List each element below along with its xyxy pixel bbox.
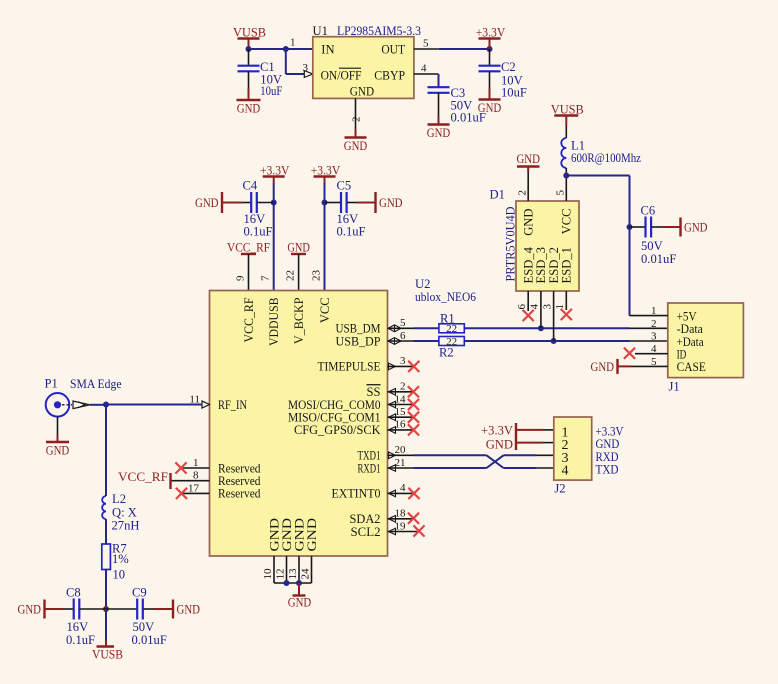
node junction VUSB_5V at L1 output <box>563 173 569 179</box>
value SMA Edge <box>70 377 122 391</box>
pin number 4 of J1 <box>651 343 657 355</box>
pin stub P1 shield to GND <box>57 417 59 442</box>
svg-text:GND: GND <box>379 196 403 210</box>
pin number 24 <box>299 568 311 580</box>
svg-text:10uF: 10uF <box>501 86 527 100</box>
svg-text:GND: GND <box>195 196 219 210</box>
ground GND at J1 CASE <box>591 359 618 374</box>
pin name +5V of J1 <box>677 308 698 323</box>
svg-text:U1: U1 <box>313 24 328 38</box>
svg-text:VCC_RF: VCC_RF <box>227 241 270 255</box>
designator L2 <box>112 492 126 506</box>
ground GND right of C6 <box>681 218 708 237</box>
node junction USB_DM at D1 pin 4 <box>538 325 544 331</box>
value Q: X <box>112 506 137 520</box>
svg-text:10: 10 <box>113 568 126 582</box>
pin stub GND (10) of U2 <box>273 556 275 583</box>
svg-text:19: 19 <box>395 520 407 532</box>
pin number 21 <box>395 457 406 469</box>
svg-text:J2: J2 <box>554 482 565 496</box>
pin number 1 of J2 <box>562 426 569 441</box>
pin name TXD of J2 <box>596 462 619 477</box>
svg-text:16: 16 <box>395 419 407 431</box>
pin stub MISO/CFG_COM1 (15) no-connect <box>388 412 420 423</box>
pin name ID of J1 <box>677 347 687 362</box>
pin number 7 <box>260 275 272 281</box>
svg-text:3: 3 <box>400 355 406 367</box>
svg-text:OUT: OUT <box>381 42 405 56</box>
pin stub USB_DM (5) to R1 <box>388 325 439 332</box>
svg-text:+3.3V: +3.3V <box>476 26 506 40</box>
wire junction to U1 pin 1 <box>286 48 313 50</box>
pin number 15 <box>395 406 407 418</box>
svg-text:18: 18 <box>395 508 407 520</box>
node junction C5 / pin23 <box>322 200 328 206</box>
pin stub D1 ESD_2 (3) <box>553 291 555 341</box>
svg-text:Reserved: Reserved <box>218 487 261 501</box>
svg-text:VCC_RF: VCC_RF <box>242 298 256 343</box>
pin number 3 of J1 <box>651 331 657 343</box>
power flag VUSB below matching network <box>92 609 123 662</box>
pin name GND of J2 <box>596 436 620 451</box>
pin number 1 of U2 <box>193 457 199 469</box>
wire RF node down to L2 <box>105 405 107 497</box>
pin number 5 of J1 <box>651 356 657 368</box>
pin stub D1 ESD_3 (4) <box>540 291 542 328</box>
svg-text:5: 5 <box>555 190 567 196</box>
capacitor C6 <box>630 204 681 267</box>
pin stub D1 ESD_1 (1) no-connect <box>561 291 572 320</box>
pin name TIMEPULSE <box>318 360 381 374</box>
svg-text:13: 13 <box>287 568 299 580</box>
pin number 2 of D1 <box>517 190 529 196</box>
pin number 2 of J2 <box>562 438 569 453</box>
pin stub EXTINT0 (4) no-connect <box>388 488 420 499</box>
pin stub Reserved (17) no-connect <box>176 488 210 499</box>
pin stub TIMEPULSE (3) no-connect <box>388 361 420 372</box>
pin name ESD_3 of D1 <box>534 247 548 284</box>
svg-text:4: 4 <box>562 464 569 479</box>
node junction RF / matching network <box>103 402 109 408</box>
power flag VCC_RF at pin 8 <box>118 470 171 489</box>
wire R7 to C8/C9 node <box>105 570 107 610</box>
value 600R@100Mhz <box>571 151 641 165</box>
svg-text:0.01uF: 0.01uF <box>641 252 676 266</box>
node junction C4 / pin7 <box>271 200 277 206</box>
pin number 4 of U1 <box>421 63 427 75</box>
svg-text:3: 3 <box>541 304 553 310</box>
ground GND below C3 <box>427 125 451 141</box>
pin number 3 of U1 <box>303 62 309 74</box>
svg-text:0.1uF: 0.1uF <box>66 633 95 647</box>
node junction USB_DP at D1 pin 3 <box>551 338 557 344</box>
svg-text:VCC: VCC <box>560 209 574 235</box>
pin number 16 <box>395 419 407 431</box>
designator R1 <box>440 312 455 326</box>
svg-text:L2: L2 <box>112 492 126 506</box>
svg-text:VUSB: VUSB <box>233 26 266 40</box>
svg-text:VUSB: VUSB <box>551 103 584 117</box>
pin name MOSI/CHG_COM0 <box>288 398 381 412</box>
pin stub GND (13) of U2 <box>298 556 300 583</box>
wire L2 to R7 <box>105 519 107 544</box>
resistor R2 <box>439 336 464 348</box>
svg-text:5: 5 <box>400 317 406 329</box>
ground GND right of C5 <box>376 192 403 213</box>
svg-text:RF_IN: RF_IN <box>218 398 247 412</box>
capacitor C8 <box>45 586 107 648</box>
svg-text:600R@100Mhz: 600R@100Mhz <box>571 151 641 165</box>
pin name TXD1 <box>358 449 381 463</box>
pin number 1 of U1 <box>290 37 296 49</box>
svg-text:5: 5 <box>423 38 429 50</box>
wire U1 GND pin 2 down <box>355 98 357 137</box>
power flag VUSB (input to U1) <box>233 26 266 50</box>
svg-text:27nH: 27nH <box>112 519 140 533</box>
capacitor C3 <box>428 86 486 125</box>
pin number 20 <box>395 444 407 456</box>
svg-text:1: 1 <box>290 37 296 49</box>
pin number 9 <box>235 275 247 281</box>
wire +3.3V to U2 pin 23 VCC <box>324 183 326 291</box>
pin stub J1 CASE (5) <box>618 365 668 367</box>
svg-text:3: 3 <box>303 62 309 74</box>
svg-text:R2: R2 <box>439 346 454 360</box>
pin name ESD_4 of D1 <box>522 246 536 283</box>
inductor L2 <box>102 496 106 519</box>
svg-text:50V: 50V <box>641 239 663 253</box>
pin number 14 <box>395 393 407 405</box>
svg-text:6: 6 <box>400 330 406 342</box>
pin name +3.3V of J2 <box>596 424 625 439</box>
svg-text:1: 1 <box>193 457 199 469</box>
svg-text:8: 8 <box>193 470 199 482</box>
pin stub J1 +5V (1) <box>630 315 668 317</box>
wire USB_DM net R1 to J1 -Data <box>464 327 668 329</box>
pin stub CFG_GPS0/SCK (16) no-connect <box>388 424 420 435</box>
IC U2 ublox_NEO6 body <box>210 291 388 557</box>
svg-text:9: 9 <box>235 275 247 281</box>
svg-text:23: 23 <box>311 270 323 282</box>
designator P1 <box>45 377 58 391</box>
op-amp U1 body LP2985 <box>313 37 414 99</box>
pin name SDA2 <box>350 512 381 526</box>
ground GND below C2 <box>478 100 502 116</box>
ground GND right of C9 <box>173 600 200 619</box>
pin name CFG_GPS0/SCK <box>294 423 381 437</box>
inductor L1 <box>561 126 566 176</box>
svg-text:GND: GND <box>522 209 536 236</box>
svg-text:U2: U2 <box>415 277 430 291</box>
svg-text:C6: C6 <box>641 204 656 218</box>
value 27nH <box>112 519 140 533</box>
pin number 10 <box>262 568 274 580</box>
power flag GND at J2 pin 2 <box>486 437 554 452</box>
svg-text:CFG_GPS0/SCK: CFG_GPS0/SCK <box>294 423 381 437</box>
svg-text:VCC_RF: VCC_RF <box>118 470 168 484</box>
resistor R7 <box>102 544 111 570</box>
pin number 4 of J2 <box>562 464 569 479</box>
svg-text:CBYP: CBYP <box>374 68 405 82</box>
node junction GND pin 12 <box>284 580 290 586</box>
pin number 2 of U1 <box>351 117 363 123</box>
pin stub D1 GND (2) <box>527 167 529 201</box>
pin number 1 of D1 <box>554 304 566 310</box>
value LP2985AIM5-3.3 <box>337 24 421 38</box>
pin name Reserved 1 <box>218 461 261 475</box>
pin name VCC (23) <box>318 298 332 324</box>
designator R7 <box>112 542 127 556</box>
pin number 12 <box>274 569 286 580</box>
pin stub GND (24) of U2 <box>311 556 313 583</box>
pin number 6 <box>400 330 406 342</box>
svg-text:IN: IN <box>321 42 334 56</box>
svg-text:TXD: TXD <box>596 462 619 477</box>
pin name Reserved 3 <box>218 487 261 501</box>
pin number 3 of J2 <box>562 451 569 466</box>
capacitor C5 <box>325 179 376 239</box>
wire branch down to U1 pin 3 <box>286 49 305 74</box>
pin stub GND (12) of U2 <box>286 556 288 583</box>
pin arrow of P1 signal <box>73 401 90 409</box>
svg-text:14: 14 <box>395 393 407 405</box>
wire GND bus below U2 <box>274 582 312 584</box>
svg-text:12: 12 <box>274 569 286 580</box>
pin stub J1 ID (4) no-connect <box>624 348 668 359</box>
pin name RF_IN (11) <box>218 398 247 412</box>
svg-text:GND: GND <box>46 444 70 458</box>
pin name GND (bottom 1) <box>267 518 281 552</box>
svg-text:SCL2: SCL2 <box>351 525 381 539</box>
svg-text:V_BCKP: V_BCKP <box>292 298 306 345</box>
pin stub TXD1 (20) <box>388 452 414 459</box>
svg-text:VCC: VCC <box>318 298 332 324</box>
diode array D1 PRTR5V0U4D body <box>516 201 579 291</box>
power flag VCC_RF above U2 pin 9 <box>227 241 270 291</box>
svg-text:10uF: 10uF <box>260 84 282 98</box>
capacitor C9 <box>106 586 173 648</box>
pin number 4 of D1 <box>529 304 541 310</box>
pin name RXD of J2 <box>596 449 619 464</box>
pin name VDDUSB (7) <box>267 298 281 347</box>
svg-text:GND: GND <box>591 360 615 374</box>
designator J1 <box>669 379 680 393</box>
wire P1 to U2 RF_IN <box>90 404 202 406</box>
svg-text:GND: GND <box>288 596 312 610</box>
svg-text:R1: R1 <box>440 312 455 326</box>
pin stub USB_DP (6) to R2 <box>388 338 439 345</box>
node +3.3V junction at C2 <box>487 46 493 52</box>
svg-text:+3.3V: +3.3V <box>481 424 513 438</box>
pin number 8 of U2 <box>193 470 199 482</box>
designator D1 <box>490 188 505 202</box>
pin name ESD_2 of D1 <box>547 247 561 284</box>
svg-text:2: 2 <box>651 318 657 330</box>
pin number 6 of D1 <box>516 304 528 310</box>
pin name +Data of J1 <box>677 334 704 349</box>
capacitor C2 <box>479 49 527 100</box>
value 10 <box>113 568 126 582</box>
ground GND left of C8 <box>18 600 45 619</box>
svg-text:GND: GND <box>684 221 708 235</box>
svg-text:1: 1 <box>554 304 566 310</box>
pin name CASE of J1 <box>677 359 706 374</box>
svg-text:D1: D1 <box>490 188 505 202</box>
pin number 2 of J1 <box>651 318 657 330</box>
svg-text:J1: J1 <box>669 379 680 393</box>
ground GND above D1 <box>516 152 540 167</box>
svg-text:GND: GND <box>237 102 261 116</box>
svg-text:C9: C9 <box>132 586 147 600</box>
svg-text:2: 2 <box>351 117 363 123</box>
ground GND below C1 <box>237 100 261 116</box>
pin name SCL2 <box>351 525 381 539</box>
ground GND left of C4 <box>195 192 222 213</box>
pin name USB_DP <box>336 334 381 348</box>
pin number 11 of U2 <box>189 394 200 406</box>
svg-text:USB_DP: USB_DP <box>336 334 381 348</box>
pin stub RXD1 (21) <box>388 465 414 472</box>
designator U1 <box>313 24 328 38</box>
node junction IN/ON-OFF branch <box>283 46 289 52</box>
wire U1 OUT pin 5 to +3.3V node <box>414 48 490 50</box>
pin name SS <box>366 385 380 399</box>
svg-text:+3.3V: +3.3V <box>260 164 290 178</box>
pin number 19 <box>395 520 407 532</box>
connector J1 body <box>668 303 744 378</box>
designator L1 <box>571 139 585 153</box>
value 1% <box>112 552 129 566</box>
pin number 5 <box>400 317 406 329</box>
svg-text:GND: GND <box>350 84 374 98</box>
svg-text:6: 6 <box>516 304 528 310</box>
pin name V_BCKP (22) <box>292 298 306 345</box>
svg-text:GND: GND <box>305 518 319 552</box>
pin number 5 of D1 <box>555 190 567 196</box>
svg-text:P1: P1 <box>45 377 58 391</box>
pin number 17 of U2 <box>188 482 200 494</box>
svg-text:+3.3V: +3.3V <box>311 164 341 178</box>
svg-text:CASE: CASE <box>677 359 706 374</box>
designator R2 <box>439 346 454 360</box>
designator U2 <box>415 277 430 291</box>
pin stub D1 VCC (5) <box>565 176 567 202</box>
pin name VCC_RF (9) <box>242 298 256 343</box>
svg-text:1%: 1% <box>112 552 129 566</box>
node VUSB junction at C1 <box>246 46 252 52</box>
svg-text:VDDUSB: VDDUSB <box>267 298 281 347</box>
designator J2 <box>554 482 565 496</box>
wire TXD1 from U2 pin 20 <box>414 454 487 456</box>
svg-text:GND: GND <box>18 603 42 617</box>
pin number 18 <box>395 508 407 520</box>
svg-text:17: 17 <box>188 482 200 494</box>
ground GND below U1 pin 2 <box>344 138 368 154</box>
resistor R1 <box>439 323 464 335</box>
svg-text:GND: GND <box>344 139 368 153</box>
power flag +3.3V (U1 output) <box>476 26 506 50</box>
svg-text:3: 3 <box>651 331 657 343</box>
value ublox_NEO6 <box>415 290 476 304</box>
pin stub SDA2 (18) no-connect <box>388 513 420 524</box>
connector P1 SMA body <box>46 393 72 417</box>
wire +3.3V to U2 pin 7 VDDUSB <box>273 183 275 291</box>
wire VUSB junction to pin-3 branch junction <box>249 48 286 50</box>
pin number 23 <box>311 270 323 282</box>
svg-text:4: 4 <box>400 482 406 494</box>
pin number 4 <box>400 482 406 494</box>
pin number 1 of J1 <box>651 305 657 317</box>
svg-text:Q: X: Q: X <box>112 506 137 520</box>
svg-text:SMA Edge: SMA Edge <box>70 377 122 391</box>
svg-text:ON/OFF: ON/OFF <box>321 68 362 82</box>
wire RXD1 crossover diagonal <box>487 455 554 468</box>
pin name RXD1 <box>358 461 381 475</box>
power flag VUSB above L1 <box>551 103 584 127</box>
ground GND below U2 <box>288 583 312 610</box>
pin number 22 <box>285 270 297 281</box>
svg-text:16V: 16V <box>67 620 89 634</box>
svg-text:22: 22 <box>285 270 297 281</box>
power flag +3.3V at J2 pin 1 <box>481 423 554 438</box>
ground GND below P1 <box>46 442 70 458</box>
node junction C8/C9/VUSB <box>103 606 109 612</box>
pin RF_IN input arrow <box>202 401 210 408</box>
pin stub Reserved (1) no-connect <box>175 462 209 473</box>
pin name VCC of D1 <box>560 209 574 235</box>
svg-text:C4: C4 <box>243 179 258 193</box>
svg-text:4: 4 <box>421 63 427 75</box>
svg-text:15: 15 <box>395 406 407 418</box>
pin name GND (bottom 2) <box>280 518 294 552</box>
pin 3 input arrow of U1 <box>304 71 313 78</box>
pin name -Data of J1 <box>677 321 704 336</box>
svg-text:21: 21 <box>395 457 406 469</box>
wire TXD1 crossover diagonal <box>487 455 554 468</box>
svg-text:GND: GND <box>486 438 513 452</box>
wire U1 CBYP pin 4 to C3 <box>414 74 439 87</box>
connector J2 body <box>554 417 592 480</box>
svg-text:EXTINT0: EXTINT0 <box>332 487 381 501</box>
power flag +3.3V above C4 <box>260 164 290 184</box>
pin name GND of D1 <box>522 209 536 236</box>
svg-text:C5: C5 <box>337 179 352 193</box>
capacitor C1 <box>238 49 283 100</box>
pin name USB_DM <box>336 322 381 336</box>
node junction at C6 <box>627 224 633 230</box>
svg-text:GND: GND <box>287 241 310 255</box>
svg-text:2: 2 <box>517 190 529 196</box>
pin number 3 <box>400 355 406 367</box>
pin number 13 <box>287 568 299 580</box>
svg-text:GND: GND <box>516 152 540 166</box>
svg-text:RXD1: RXD1 <box>358 461 381 475</box>
value PRTR5V0U4D (rotated) <box>504 207 518 282</box>
pin number 5 of U1 <box>423 38 429 50</box>
svg-text:PRTR5V0U4D: PRTR5V0U4D <box>504 207 518 282</box>
wire L1 to +5V branch <box>566 176 629 316</box>
pin stub D1 ESD_4 (6) no-connect <box>523 291 534 321</box>
svg-text:20: 20 <box>395 444 407 456</box>
svg-text:LP2985AIM5-3.3: LP2985AIM5-3.3 <box>337 24 421 38</box>
svg-text:4: 4 <box>529 304 541 310</box>
wire RXD1 from U2 pin 21 <box>414 467 487 469</box>
pin name GND (bottom 4) <box>305 518 319 552</box>
pin name Reserved 2 <box>218 474 261 488</box>
svg-text:0.01uF: 0.01uF <box>451 111 486 125</box>
power flag +3.3V above C5 <box>311 164 341 184</box>
svg-text:ESD_1: ESD_1 <box>560 247 574 284</box>
